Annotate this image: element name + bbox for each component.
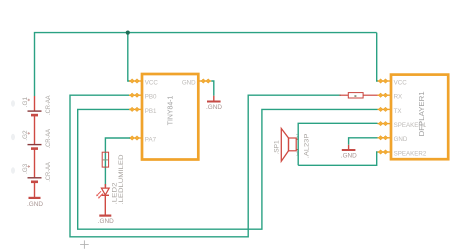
svg-text:.CR-AA: .CR-AA [45, 128, 52, 148]
faint ghost mark G1 [11, 100, 15, 106]
svg-text:.GND: .GND [27, 201, 43, 208]
origin cross [80, 240, 89, 248]
wire speaker terminal 2 to SPEAKER1 pin [298, 123, 377, 165]
svg-text:PB0: PB0 [145, 94, 157, 101]
wire PB0 to RX (left loop bottom) [70, 95, 341, 237]
svg-text:.GND: .GND [206, 104, 222, 111]
pin GND DFPLAYER1 [378, 136, 391, 140]
speaker SP1 terminal 2 [296, 138, 298, 140]
svg-text:.G3: .G3 [22, 163, 29, 174]
LED LED2 triangle [101, 188, 109, 195]
ground DFPLAYER bar [342, 149, 356, 151]
resistor R2 origin mark [103, 159, 108, 161]
LED cathode to ground lead [104, 195, 106, 215]
battery G1 positive plate [28, 110, 42, 112]
resistor R1 body [348, 93, 363, 98]
wire DFPLAYER GND to ground [349, 138, 378, 145]
svg-text:RX: RX [394, 94, 403, 101]
wire PA7 to LED chain [105, 138, 130, 187]
LED LED2 emission arrow 2 [100, 194, 103, 197]
pin SPEAKER1 DFPLAYER1 [378, 121, 391, 125]
ground TINY84 stub [213, 96, 215, 101]
svg-text:.G2: .G2 [22, 130, 29, 141]
svg-text:PA7: PA7 [145, 136, 157, 143]
pin VCC DFPLAYER1 [378, 79, 391, 83]
battery G2 negative plate [31, 147, 38, 150]
wire PB1 to TX (inner loop) [78, 109, 378, 229]
pin GND TINY84 right side [198, 79, 211, 83]
faint ghost mark G2 [11, 134, 15, 140]
ground DFPLAYER stub [348, 145, 350, 150]
LED LED2 anode lead [104, 184, 106, 188]
pin TX DFPLAYER1 [378, 107, 391, 111]
svg-text:.G1: .G1 [22, 96, 29, 107]
faint ghost mark G3 [11, 167, 15, 173]
svg-text:VCC: VCC [145, 79, 159, 86]
LED LED2 cathode bar [102, 194, 109, 196]
svg-text:.CR-AA: .CR-AA [45, 161, 52, 181]
ground battery bar [29, 197, 41, 199]
svg-text:.AL23P: .AL23P [304, 134, 311, 159]
pin RX DFPLAYER1 [378, 93, 391, 97]
battery G3 plus mark [28, 165, 31, 167]
svg-text:GND: GND [182, 79, 196, 86]
svg-text:VCC: VCC [394, 79, 408, 86]
svg-text:.GND: .GND [98, 218, 114, 225]
wire TINY84 GND to ground [211, 81, 214, 96]
svg-text:.CR-AA: .CR-AA [45, 95, 52, 115]
resistor R2 body vertical [102, 152, 108, 167]
pin PB0 TINY84 [129, 93, 142, 97]
ground TINY84 bar [207, 101, 221, 103]
svg-text:.GND: .GND [341, 153, 357, 160]
battery G3 negative plate [31, 181, 38, 184]
wire VCC drop to DFPLAYER VCC [377, 33, 378, 81]
pin VCC TINY84 [129, 79, 142, 83]
wire VCC drop to TINY84 VCC [128, 33, 130, 81]
svg-text:.LEDLUMILED: .LEDLUMILED [118, 154, 125, 204]
pin SPEAKER2 DFPLAYER1 [378, 150, 391, 154]
ground LED bar [99, 215, 111, 217]
battery G2 positive plate [28, 144, 42, 146]
svg-text:TINY84-1: TINY84-1 [166, 96, 175, 126]
resistor R1 origin mark [354, 95, 356, 97]
battery G1 negative plate [31, 114, 38, 117]
svg-text:PB1: PB1 [145, 108, 157, 115]
svg-text:.SP1: .SP1 [274, 140, 281, 155]
speaker SP1 cone [281, 129, 288, 162]
pin PB1 TINY84 [129, 107, 142, 111]
wire VCC top rail from battery to DFPlayer [35, 33, 377, 96]
battery stack lead segments [34, 96, 36, 111]
resistor R1 lead left [340, 94, 349, 96]
svg-text:SPEAKER2: SPEAKER2 [394, 150, 427, 157]
IC TINY84 box [142, 74, 198, 160]
battery G2 plus mark [28, 132, 31, 134]
battery G1 plus mark [28, 99, 31, 101]
svg-text:DFPLAYER1: DFPLAYER1 [417, 91, 426, 136]
wire speaker terminal 1 to SPEAKER2 pin [298, 152, 377, 165]
IC DFPLAYER1 box [391, 75, 448, 160]
svg-text:TX: TX [394, 108, 402, 115]
junction dot VCC rail [126, 30, 130, 34]
pin PA7 TINY84 [129, 136, 142, 140]
resistor R1 lead right [363, 94, 377, 96]
svg-text:GND: GND [394, 136, 408, 143]
speaker SP1 driver box [289, 138, 297, 151]
speaker SP1 terminal 1 [296, 149, 298, 151]
LED LED2 emission arrow 1 [98, 191, 101, 194]
battery G3 positive plate [28, 177, 42, 179]
